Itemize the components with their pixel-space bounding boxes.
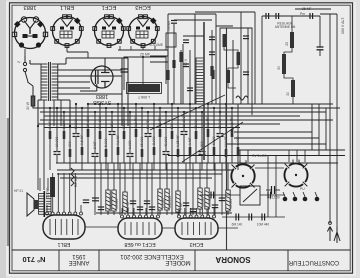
wire tube link 3: [218, 227, 238, 229]
electrode: [71, 219, 73, 235]
electrode: [130, 222, 132, 235]
resistor 5.000: [213, 147, 216, 155]
wire tube link: [85, 226, 118, 228]
junction: [165, 111, 167, 113]
antenna coil top wire: [262, 15, 320, 17]
wire right conn 3: [325, 108, 327, 150]
wire gang feed x289: [288, 150, 290, 162]
junction: [117, 103, 119, 105]
tuning gang section (243,176): [231, 160, 254, 187]
socket lead x155: [154, 46, 156, 50]
svg-text:50: 50: [277, 66, 281, 70]
pin wire: [127, 208, 129, 215]
svg-text:ECH3: ECH3: [135, 4, 150, 10]
tube socket ECF1: [93, 15, 125, 48]
junction: [135, 103, 137, 105]
resistor 0,5 MF: [231, 129, 234, 137]
pin terminal: [46, 212, 49, 215]
electrode: [204, 222, 206, 235]
svg-text:0,1 MF: 0,1 MF: [116, 134, 120, 145]
resistor 0,1 MF: [159, 129, 162, 137]
wire column x166: [165, 112, 167, 170]
wire column x184: [183, 112, 185, 163]
resistor 500: [171, 131, 174, 139]
transformer secondary: [52, 64, 58, 100]
pin terminal: [133, 215, 136, 218]
capacitor band: [83, 200, 89, 203]
pin terminal: [74, 212, 77, 215]
capacitor 40.000: [163, 152, 170, 155]
osc bottom coil: [236, 96, 248, 100]
svg-text:500: 500: [170, 123, 174, 129]
capacitor band: [219, 198, 225, 201]
transformer primary: [41, 64, 47, 100]
cap volume: [171, 20, 177, 22]
pin wire: [57, 173, 59, 212]
wire drop x152: [151, 163, 153, 215]
wire column x44: [43, 126, 45, 190]
wire column x118: [117, 104, 119, 170]
small rect 174: [172, 60, 175, 68]
wire x122: [121, 58, 123, 126]
wire column x112: [111, 112, 113, 163]
wire drop x222: [221, 163, 223, 215]
wire bus y104: [88, 103, 333, 105]
wire column x76: [75, 104, 77, 163]
wire bus y124: [38, 123, 280, 125]
antenna fork: [336, 227, 338, 232]
resistor 0,5 MF: [81, 147, 84, 155]
junction: [75, 103, 77, 105]
wire column x136: [135, 104, 137, 163]
wire spk 2: [47, 178, 49, 191]
wire drop x228: [227, 163, 229, 215]
cap v1: [210, 192, 212, 199]
svg-text:300: 300: [68, 141, 72, 147]
osc coil 2: [237, 52, 241, 65]
svg-text:25.000: 25.000: [161, 198, 165, 208]
rectifier tube 5Y3GB: [80, 58, 128, 126]
svg-text:EBL1: EBL1: [58, 241, 71, 247]
tube EBL1 envelope: [43, 215, 85, 239]
title divider 3: [194, 250, 196, 271]
wire vertical x181: [180, 50, 182, 104]
wire drop x178: [177, 163, 179, 215]
resistor 300: [69, 149, 72, 157]
tube socket EBL1: [51, 15, 83, 48]
resistor 1 MF: [176, 191, 180, 212]
svg-text:Pm: Pm: [300, 12, 305, 16]
svg-text:40.000: 40.000: [229, 199, 233, 209]
selector diagonal 1: [150, 95, 225, 130]
wire spk 1: [39, 178, 41, 191]
pin terminal: [151, 215, 154, 218]
junction: [105, 107, 107, 109]
resistor 5.000: [105, 149, 108, 157]
wire column x142: [141, 108, 143, 170]
pin wire: [196, 208, 198, 215]
osc link 3: [228, 83, 236, 88]
wire tube link 2: [162, 227, 175, 229]
resistor 30.000: [198, 188, 202, 209]
tube socket 1883: [12, 17, 47, 49]
antenna cap c: [309, 13, 311, 19]
cap w3: [261, 214, 263, 221]
svg-text:15.000: 15.000: [140, 137, 144, 147]
svg-text:0,1 MF: 0,1 MF: [206, 116, 210, 127]
capacitor band: [183, 203, 189, 206]
wire x320: [319, 16, 321, 47]
wire link y56: [150, 55, 168, 57]
junction: [177, 107, 179, 109]
pin wire: [190, 208, 192, 215]
pin wire: [121, 208, 123, 215]
trimmer cap: [266, 186, 280, 194]
transformer core: [48, 62, 50, 101]
junction: [201, 111, 203, 113]
resistor 50.000: [112, 190, 116, 211]
contact: [315, 197, 320, 202]
wire vertical x241: [240, 12, 242, 104]
electrode: [60, 219, 62, 235]
wire right top2: [320, 13, 337, 15]
wire gang feed x305: [304, 150, 306, 162]
svg-text:ECH3: ECH3: [189, 241, 203, 247]
svg-text:~: ~: [17, 60, 21, 66]
wire bus y116: [44, 115, 300, 117]
svg-text:1 MF: 1 MF: [48, 121, 52, 129]
capacitor band: [130, 201, 136, 204]
wire column x64: [63, 112, 65, 163]
wire horizontal y138: [234, 137, 319, 139]
wire column x196: [195, 108, 197, 163]
svg-text:2 MF: 2 MF: [93, 141, 97, 149]
wire column x226: [225, 104, 227, 170]
resistor 0,1 MF: [207, 129, 210, 137]
wire drop x172: [171, 163, 173, 215]
capacitor small: [209, 37, 215, 40]
contact: [283, 197, 288, 202]
pin wire: [52, 173, 54, 212]
junction: [129, 111, 131, 113]
pin wire: [139, 208, 141, 215]
capacitor small: [183, 64, 189, 67]
wire drop x125: [124, 163, 126, 215]
osc coil 1: [223, 34, 227, 47]
cap w1: [235, 214, 237, 221]
wire y218: [222, 216, 285, 218]
wire column x38: [37, 126, 39, 190]
wire horizontal y144: [226, 143, 326, 145]
wire drop x101: [100, 163, 102, 215]
capacitor small: [209, 52, 215, 55]
resistor 1 MF: [189, 147, 192, 155]
svg-text:0,25 MF: 0,25 MF: [176, 135, 180, 147]
wire column x100: [99, 104, 101, 163]
junction: [63, 111, 65, 113]
junction: [87, 103, 89, 105]
capacitor 10.000: [54, 152, 61, 155]
cap w2: [248, 214, 250, 221]
socket bottom bus: [118, 49, 168, 51]
wire column x172: [171, 104, 173, 163]
socket2 lead: [66, 46, 68, 52]
junction: [153, 103, 155, 105]
wire y195b: [260, 194, 285, 196]
wire link y62: [150, 61, 168, 63]
wire right top: [295, 8, 331, 10]
wire horizontal y170: [57, 169, 234, 171]
pin terminal: [63, 212, 66, 215]
wire drop x167: [166, 163, 168, 215]
electrode: [198, 222, 200, 235]
wire right 1: [329, 14, 331, 223]
junction: [159, 107, 161, 109]
pin wire: [201, 208, 203, 215]
electrode: [181, 222, 183, 235]
junction: [56, 107, 58, 109]
wire drop x147: [146, 163, 148, 215]
selector diagonal 2: [182, 122, 243, 162]
svg-text:SONORA: SONORA: [215, 255, 250, 264]
small rect 213: [211, 70, 214, 79]
svg-text:10.000: 10.000: [182, 117, 186, 127]
output transformer: [39, 191, 52, 217]
title block top line: [12, 249, 350, 251]
wire column x190: [189, 104, 191, 170]
wire gang feed x297: [296, 150, 298, 162]
title divider 4: [287, 250, 289, 271]
wire vertical x255: [254, 12, 256, 104]
capacitor small: [183, 40, 189, 43]
svg-text:30.000: 30.000: [122, 119, 126, 129]
svg-text:50 V: 50 V: [184, 58, 188, 66]
wire column x130: [129, 112, 131, 170]
junction: [69, 125, 71, 127]
wire column x220: [219, 112, 221, 163]
wire drop x133: [132, 163, 134, 215]
wire gang feed x248: [247, 150, 249, 162]
wire gang feed x240: [239, 150, 241, 162]
antenna coil 3 wire: [292, 97, 294, 104]
tube ECH3 envelope: [175, 218, 218, 239]
svg-text:300 V ALT.: 300 V ALT.: [341, 17, 345, 34]
wire column x57: [56, 108, 58, 163]
wire bus y108: [33, 107, 340, 109]
pin terminal: [80, 212, 83, 215]
pin terminal: [51, 212, 54, 215]
wire column x154: [153, 104, 155, 170]
svg-text:2.000: 2.000: [236, 136, 240, 145]
cap v2: [267, 192, 269, 199]
svg-text:0,5 MF: 0,5 MF: [80, 134, 84, 145]
svg-text:25.000: 25.000: [218, 119, 222, 129]
wire right 2: [336, 14, 338, 227]
resistor tr3: [210, 66, 213, 76]
osc link 1: [224, 47, 238, 52]
resistor 100 PF: [225, 149, 228, 157]
mains switch: [23, 62, 26, 65]
svg-text:RE 340: RE 340: [74, 176, 78, 187]
title divider 2: [98, 250, 100, 271]
wire column x238: [237, 104, 239, 170]
wire bus y127: [44, 127, 240, 129]
wire column x178: [177, 108, 179, 170]
tube socket ECH3: [127, 15, 159, 48]
svg-text:N° 710: N° 710: [22, 255, 45, 264]
filter cap: [121, 68, 128, 70]
junction: [231, 107, 233, 109]
choke outline: [127, 83, 162, 94]
speaker voice coil: [34, 200, 38, 209]
pin wire: [63, 173, 65, 212]
antenna coil 2: [282, 54, 286, 74]
svg-text:VOLUME: VOLUME: [149, 43, 164, 47]
electrode: [49, 219, 51, 235]
svg-text:50.000: 50.000: [74, 119, 78, 129]
electrode: [142, 222, 144, 235]
resistor 25.000: [87, 129, 90, 137]
wire horizontal y163: [56, 162, 338, 164]
wire column x88: [87, 104, 89, 163]
junction: [213, 107, 215, 109]
oscillator block outline: [220, 28, 252, 115]
pin wire: [74, 173, 76, 212]
wire vertical x212: [211, 30, 213, 104]
pin wire: [157, 208, 159, 215]
svg-text:6M 140: 6M 140: [232, 223, 243, 227]
pin terminal: [121, 215, 124, 218]
wire drop x95: [94, 163, 96, 215]
svg-text:1951: 1951: [72, 253, 86, 259]
capacitor band: [98, 207, 104, 210]
electrode: [210, 222, 212, 235]
antenna coil 1: [290, 32, 294, 48]
capacitor 10.000: [181, 132, 188, 135]
pin wire: [213, 208, 215, 215]
svg-text:1.000: 1.000: [128, 140, 132, 149]
svg-text:CONSTRUCTEUR: CONSTRUCTEUR: [288, 259, 339, 265]
socket lead x120: [119, 46, 121, 50]
resistor 2.000: [153, 147, 156, 155]
svg-text:ANNEE: ANNEE: [69, 259, 90, 265]
zigzag resistor RE: [71, 168, 74, 186]
socket lead x131: [130, 46, 132, 50]
wire bus y112: [40, 111, 326, 113]
svg-text:10M 440: 10M 440: [257, 223, 270, 227]
svg-text:1883: 1883: [96, 93, 108, 99]
svg-text:ANTENNE 6M: ANTENNE 6M: [275, 25, 296, 29]
svg-text:10.000: 10.000: [55, 137, 59, 147]
junction: [142, 56, 144, 58]
resistor tr2: [179, 52, 182, 62]
capacitor band: [190, 209, 196, 212]
cap x320: [317, 46, 324, 48]
antenna cap a: [265, 13, 267, 19]
wire column x95: [94, 112, 96, 170]
antenna link 2: [284, 74, 293, 80]
junction: [225, 103, 227, 105]
secondary taps: [58, 63, 66, 65]
wire vertical x195: [194, 14, 196, 104]
wire bus y120: [40, 119, 333, 121]
wire link y20: [174, 19, 212, 21]
wire horizontal y150: [238, 149, 345, 151]
resistor 0,25 MF: [177, 149, 180, 157]
junction: [183, 111, 185, 113]
wire vertical x233: [232, 40, 234, 104]
pin wire: [133, 208, 135, 215]
fuse resistor: [32, 86, 34, 96]
resistor 30.000: [123, 131, 126, 139]
junction: [99, 103, 101, 105]
wire link y36: [183, 35, 204, 37]
svg-text:EBL1: EBL1: [60, 4, 74, 10]
svg-text:PU: PU: [300, 187, 305, 191]
primary leads: [30, 63, 41, 65]
pin terminal: [178, 215, 181, 218]
wire vertical x262: [261, 16, 263, 104]
svg-text:30: 30: [286, 92, 290, 96]
wire between gangs 2: [275, 156, 277, 217]
svg-text:500.000: 500.000: [168, 196, 172, 208]
svg-text:30.000: 30.000: [201, 197, 205, 207]
svg-text:1 MF: 1 MF: [179, 202, 183, 210]
wire right conn 1: [311, 104, 313, 150]
resistor 1 MF: [49, 131, 52, 139]
wire column x148: [147, 112, 149, 163]
wire y195: [200, 194, 240, 196]
svg-text:25: 25: [285, 42, 289, 46]
socket lead x166: [165, 46, 167, 50]
resistor 50.000 EBL1: [50, 177, 55, 197]
tuning gang section (296,175): [284, 160, 307, 187]
osc coil 3: [227, 70, 231, 83]
svg-text:250: 250: [110, 121, 114, 127]
ladder coil: [196, 58, 204, 104]
wire drop x168: [167, 50, 169, 56]
svg-text:25 MF: 25 MF: [140, 53, 151, 57]
speaker cone: [27, 193, 34, 216]
wire column x124: [123, 108, 125, 163]
electrode: [187, 222, 189, 235]
pin wire: [80, 205, 82, 212]
antenna link 1: [284, 48, 292, 54]
capacitor 1.000: [127, 154, 134, 157]
socket1 lead: [24, 49, 26, 56]
capacitor band: [137, 207, 143, 210]
wire x143 drop: [142, 57, 144, 84]
wire drop x186: [185, 163, 187, 215]
wire drop x120: [119, 163, 121, 215]
pin terminal: [201, 215, 204, 218]
wire horizontal y155: [168, 155, 345, 157]
svg-text:0,5 MF: 0,5 MF: [230, 116, 234, 127]
variable cap arrow: [243, 189, 257, 202]
pin terminal: [213, 215, 216, 218]
resistor 15.000: [141, 149, 144, 157]
wire column x214: [213, 108, 215, 170]
resistor 0,1 MF: [63, 131, 66, 139]
pin wire: [151, 208, 153, 215]
wire vertical x174: [173, 24, 175, 104]
wire drop x193: [192, 163, 194, 215]
svg-text:CV 2x490: CV 2x490: [252, 154, 267, 158]
svg-text:L.508 T: L.508 T: [137, 95, 150, 99]
antenna coil 3: [291, 80, 295, 97]
wire column x70: [69, 126, 71, 170]
svg-text:1883: 1883: [24, 4, 37, 10]
